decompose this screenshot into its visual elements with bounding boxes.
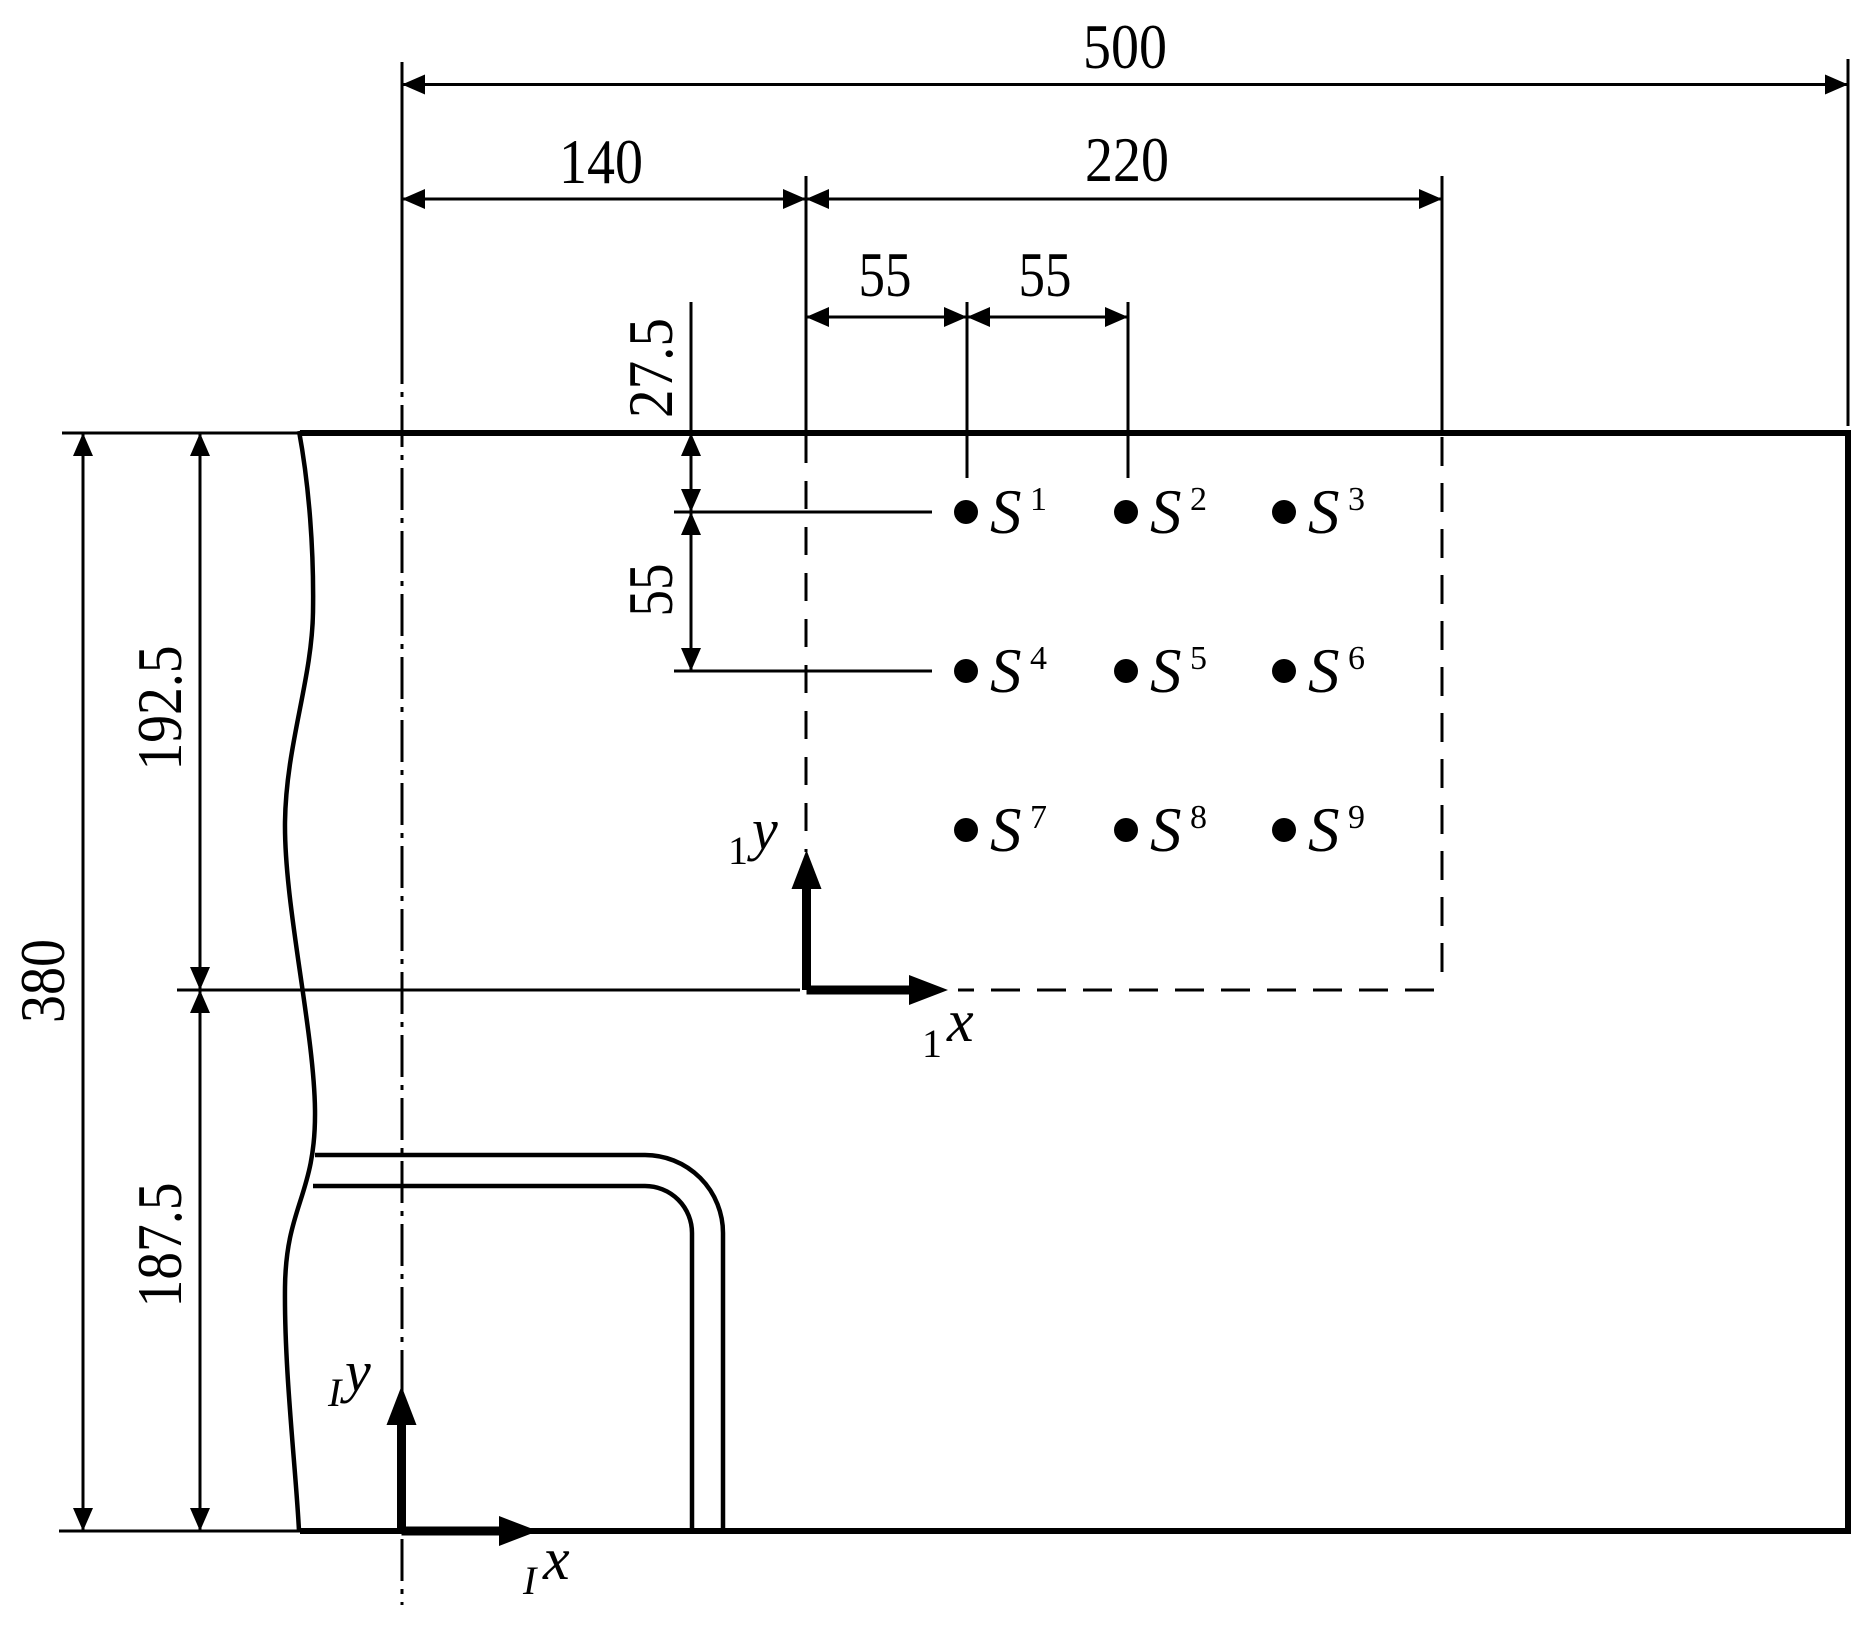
extension line x=806 solid above plate	[805, 176, 808, 433]
dimension 55 right	[967, 240, 1128, 327]
label Ix	[522, 1526, 570, 1603]
svg-text:I: I	[327, 1370, 343, 1415]
centerline dash-dot	[401, 342, 404, 1605]
label Iy	[327, 1339, 371, 1415]
svg-text:27.5: 27.5	[616, 318, 686, 418]
svg-text:S: S	[990, 636, 1022, 706]
dimension 220	[806, 125, 1442, 209]
plate top edge	[300, 430, 1851, 436]
svg-text:8: 8	[1190, 799, 1207, 836]
tube inner wall	[313, 1186, 692, 1531]
svg-text:S: S	[1308, 636, 1340, 706]
svg-text:55: 55	[1019, 240, 1072, 310]
svg-text:6: 6	[1348, 640, 1365, 677]
svg-text:192.5: 192.5	[125, 646, 195, 771]
frame 1 x-axis arrow	[807, 975, 949, 1005]
svg-text:S: S	[1308, 795, 1340, 865]
svg-text:187.5: 187.5	[125, 1183, 195, 1308]
dashed sensor region bottom edge	[958, 989, 1434, 992]
svg-text:S: S	[1150, 795, 1182, 865]
svg-text:5: 5	[1190, 640, 1207, 677]
dimension 55 vertical	[616, 512, 701, 671]
top edge extension line left of break	[62, 432, 304, 435]
frame I y-axis arrow	[387, 1386, 417, 1531]
svg-text:7: 7	[1030, 799, 1047, 836]
dimension 140	[402, 127, 806, 209]
sensor S3	[1272, 477, 1365, 547]
svg-text:2: 2	[1190, 481, 1207, 518]
svg-text:380: 380	[8, 939, 78, 1023]
dimension 500	[402, 12, 1848, 95]
svg-text:S: S	[1150, 636, 1182, 706]
frame I x-axis arrow	[402, 1516, 539, 1546]
extension line S4 row	[674, 670, 932, 673]
svg-text:500: 500	[1083, 12, 1167, 82]
dimension 380	[8, 433, 93, 1531]
svg-text:y: y	[747, 797, 778, 862]
dimension 192.5	[125, 433, 210, 990]
plate bottom edge	[300, 1528, 1851, 1534]
extension line right edge top for 500	[1847, 59, 1850, 426]
svg-text:3: 3	[1348, 481, 1365, 518]
svg-text:y: y	[340, 1339, 371, 1404]
dashed sensor region left edge	[805, 435, 808, 852]
frame 1 y-axis arrow	[792, 850, 822, 990]
sensor S6	[1272, 636, 1365, 706]
sensor S4	[954, 636, 1047, 706]
svg-text:S: S	[990, 477, 1022, 547]
sensor S5	[1114, 636, 1207, 706]
dashed sensor region right edge	[1441, 437, 1444, 984]
bottom edge extension line left of break	[59, 1530, 304, 1533]
svg-text:x: x	[542, 1526, 570, 1592]
label 1y	[728, 797, 778, 873]
dimension 27.5 vertical	[616, 302, 701, 512]
sensor S8	[1114, 795, 1207, 865]
svg-text:S: S	[1150, 477, 1182, 547]
extension line y=990 frame1 axis	[177, 989, 800, 992]
sensor S2	[1114, 477, 1207, 547]
svg-text:55: 55	[859, 240, 912, 310]
svg-text:S: S	[1308, 477, 1340, 547]
break line wavy left edge of plate	[285, 431, 315, 1531]
svg-text:I: I	[522, 1558, 538, 1603]
sensor S1	[954, 477, 1047, 547]
sensor S7	[954, 795, 1047, 865]
extension line x=1442 solid above plate	[1441, 176, 1444, 433]
extension line above S2 column	[1127, 302, 1130, 478]
svg-text:x: x	[946, 988, 974, 1054]
centerline solid extension top	[401, 62, 404, 342]
svg-text:1: 1	[1030, 481, 1047, 518]
dimension 55 left	[806, 240, 967, 327]
svg-text:1: 1	[728, 828, 748, 873]
svg-text:9: 9	[1348, 799, 1365, 836]
svg-text:140: 140	[559, 127, 643, 197]
svg-text:55: 55	[616, 564, 686, 617]
svg-text:4: 4	[1030, 640, 1047, 677]
extension line above S1 column	[966, 302, 969, 478]
label 1x	[922, 988, 974, 1066]
svg-text:220: 220	[1085, 125, 1169, 195]
extension line S1 row	[674, 511, 932, 514]
dimension 187.5	[125, 990, 210, 1531]
svg-text:S: S	[990, 795, 1022, 865]
plate right edge	[1845, 430, 1851, 1534]
tube outer wall	[315, 1155, 723, 1531]
sensor S9	[1272, 795, 1365, 865]
svg-text:1: 1	[922, 1021, 942, 1066]
